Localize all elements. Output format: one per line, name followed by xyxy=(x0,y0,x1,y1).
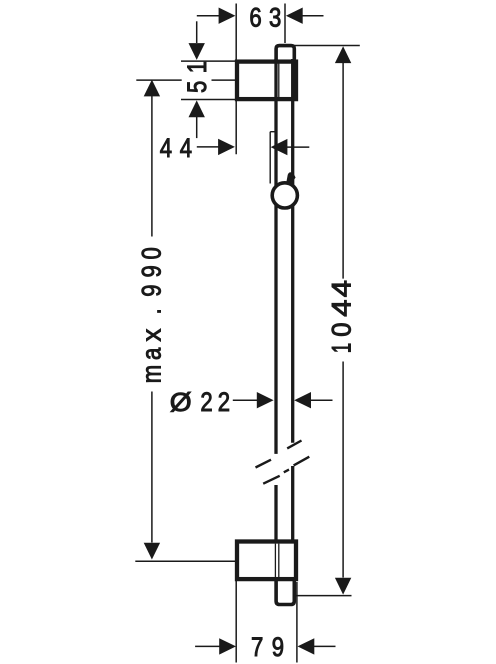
label 1044 xyxy=(326,280,357,353)
svg-text:4: 4 xyxy=(180,134,192,164)
svg-text:3: 3 xyxy=(269,3,281,33)
holder cone clip xyxy=(287,173,295,182)
svg-text:9: 9 xyxy=(138,265,168,277)
svg-text:.: . xyxy=(138,308,168,314)
svg-text:5: 5 xyxy=(183,81,213,93)
slider xyxy=(270,132,274,184)
label max. 990 xyxy=(136,247,167,383)
svg-text:1: 1 xyxy=(326,343,356,354)
label 63 xyxy=(249,3,281,33)
svg-text:7: 7 xyxy=(251,633,263,663)
svg-text:x: x xyxy=(136,329,167,342)
top bracket xyxy=(237,62,296,100)
top end cap xyxy=(276,46,294,61)
bottom bracket xyxy=(237,542,296,580)
dimension diameter 22 xyxy=(233,392,333,408)
break mark xyxy=(256,441,310,484)
rail tube upper xyxy=(276,59,293,454)
label diameter 22 xyxy=(170,388,230,418)
svg-text:2: 2 xyxy=(200,388,212,418)
dimension 1044 xyxy=(285,46,360,596)
svg-text:2: 2 xyxy=(218,388,230,418)
tube contour lines in top bracket xyxy=(275,64,278,98)
svg-text:4: 4 xyxy=(160,134,172,164)
label 79 xyxy=(251,633,284,663)
extension line 63 right xyxy=(284,4,286,44)
dimension 79 xyxy=(195,582,335,663)
svg-text:6: 6 xyxy=(249,3,261,33)
dimension 51 xyxy=(181,21,235,138)
label 44 xyxy=(160,134,192,164)
rail tube lower xyxy=(276,466,293,542)
svg-text:Ø: Ø xyxy=(170,388,192,417)
holder ring xyxy=(272,183,297,208)
svg-text:a: a xyxy=(138,347,168,360)
wall extension line (top segment) xyxy=(235,4,237,155)
svg-text:9: 9 xyxy=(138,284,168,296)
svg-text:0: 0 xyxy=(138,247,168,259)
svg-text:4: 4 xyxy=(327,300,357,317)
tube contour lines in bottom bracket xyxy=(275,544,278,577)
dimension 44 xyxy=(197,139,309,156)
wall extension line (bottom segment) xyxy=(235,581,237,663)
svg-text:0: 0 xyxy=(326,322,357,336)
svg-text:m: m xyxy=(138,365,168,383)
svg-text:4: 4 xyxy=(327,280,357,297)
bottom end cap xyxy=(276,581,294,605)
svg-text:1: 1 xyxy=(183,61,213,73)
dimension max. 990 xyxy=(135,80,235,562)
svg-text:9: 9 xyxy=(272,633,284,663)
label 51 xyxy=(183,61,213,93)
dimension 63 xyxy=(197,8,324,24)
